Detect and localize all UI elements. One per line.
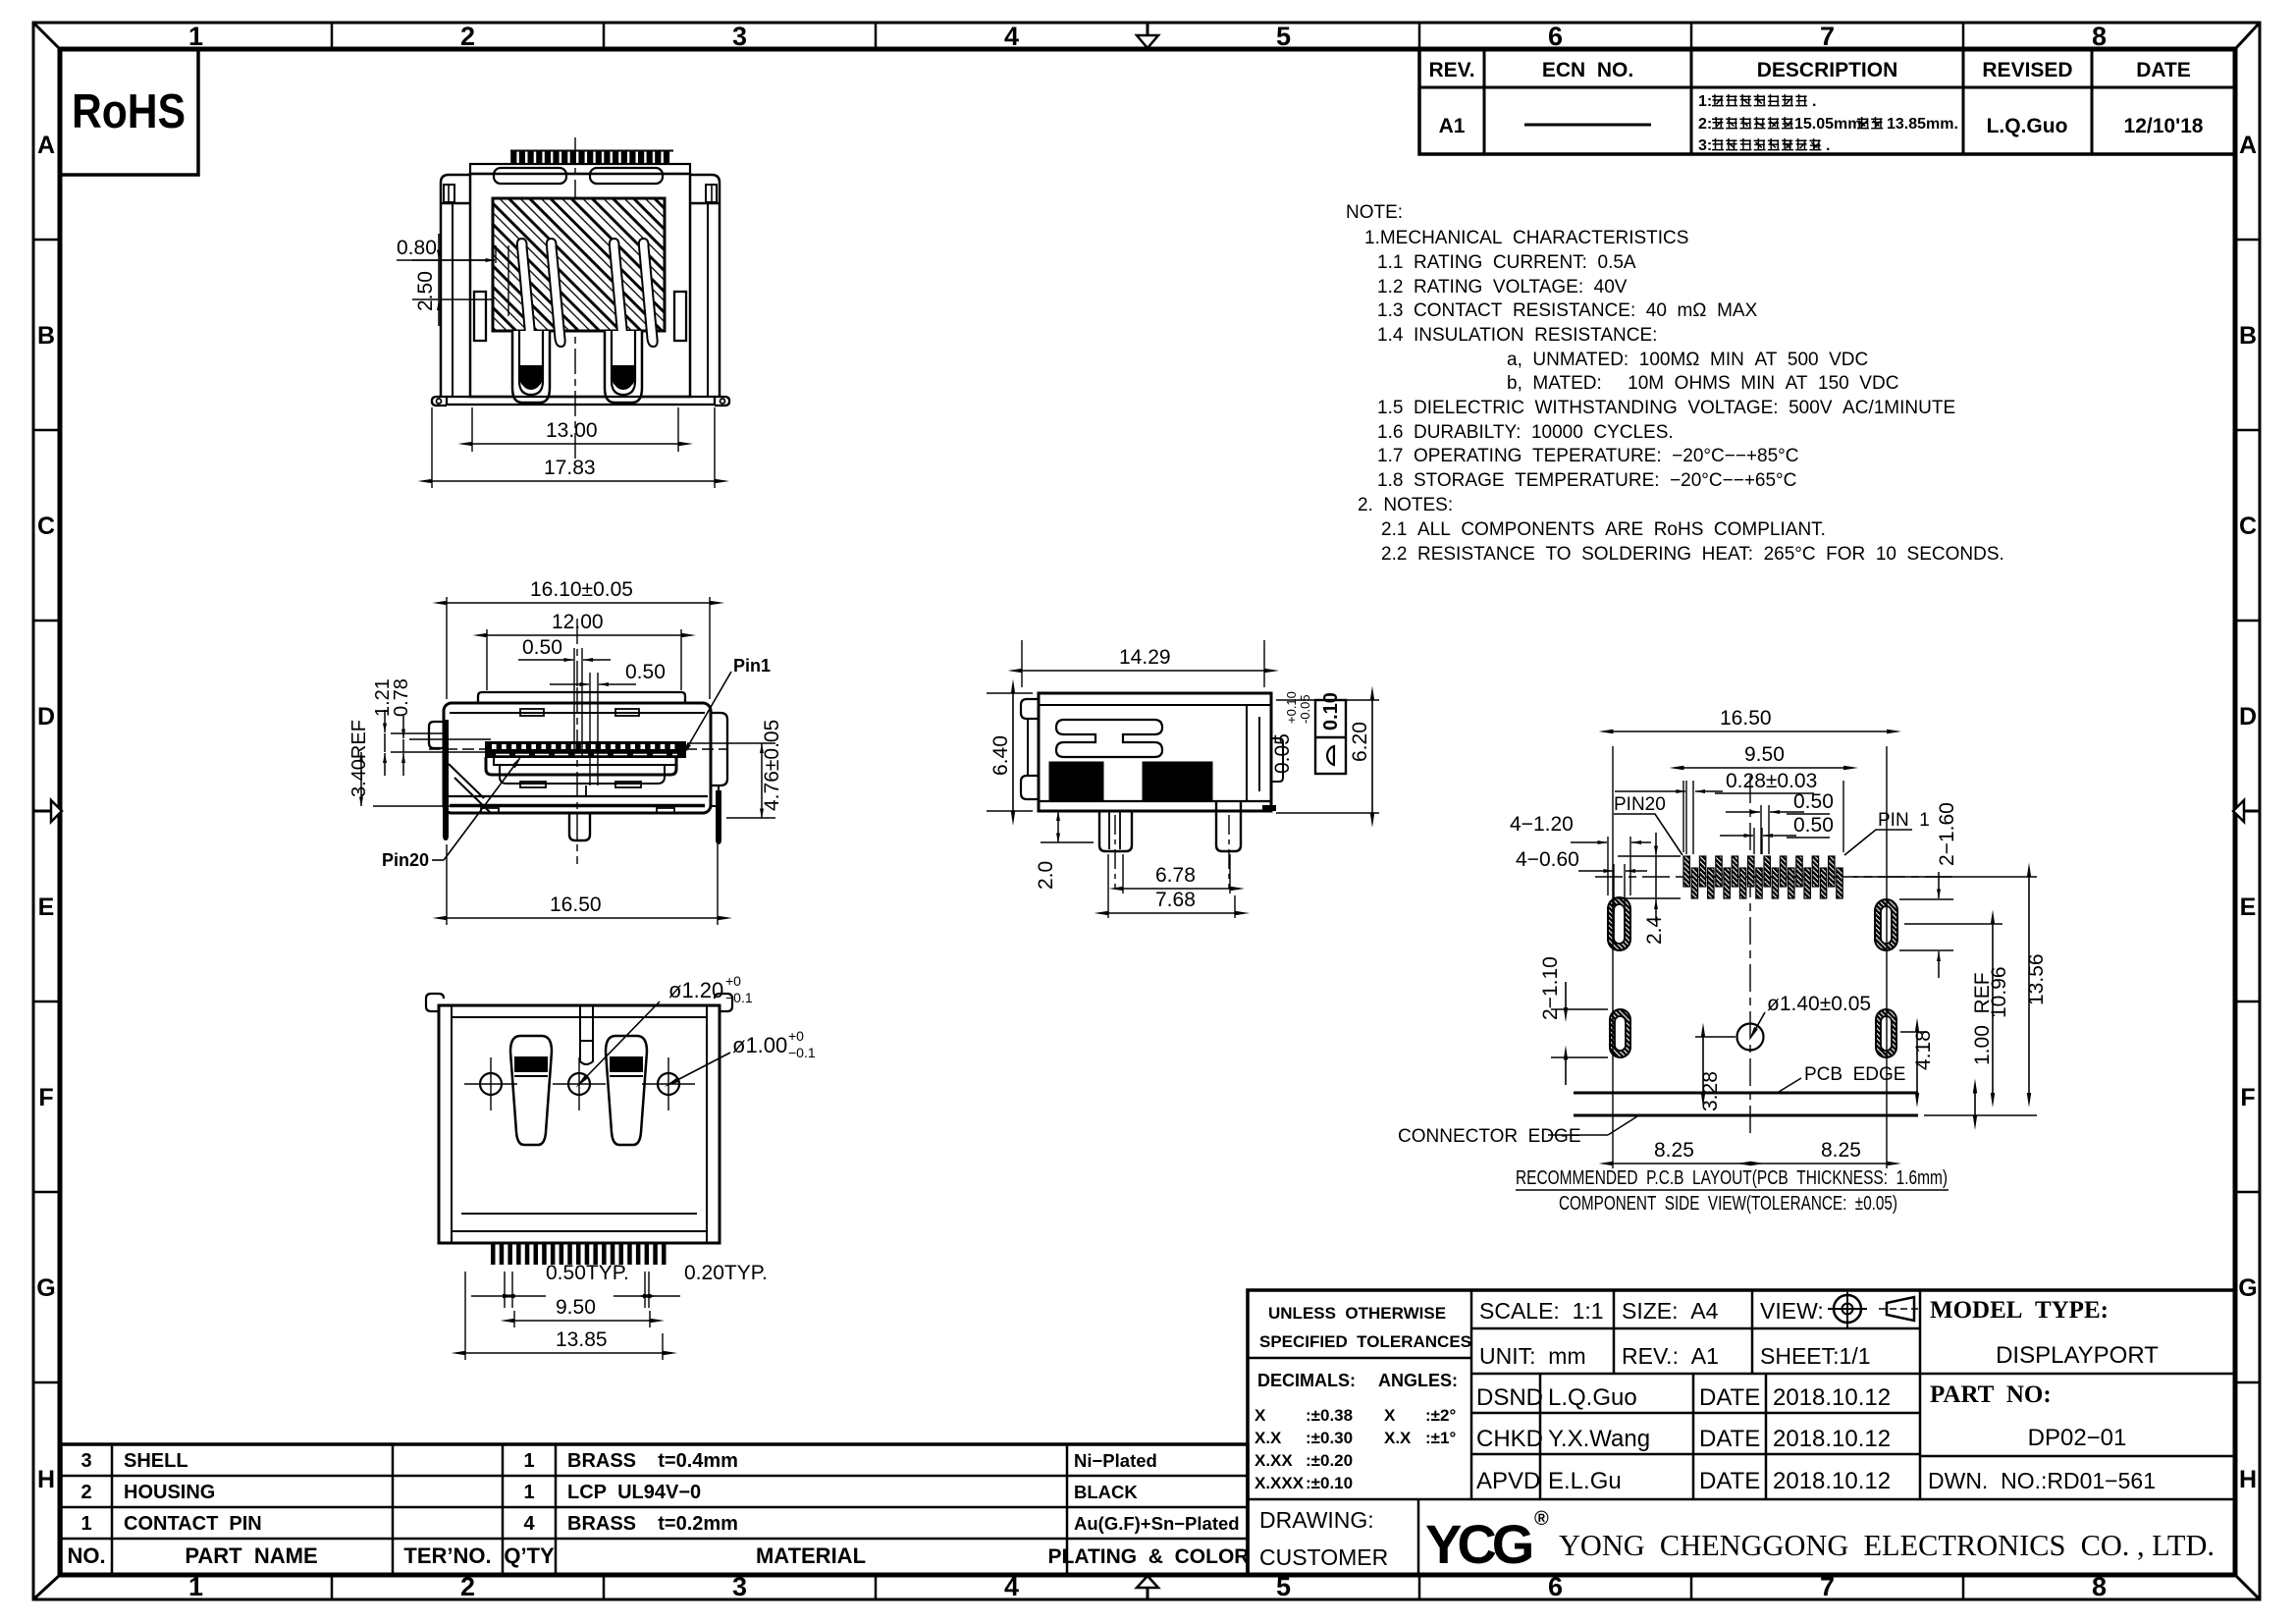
VIEW 1: connector top view	[432, 137, 729, 461]
svg-text:UNIT: mm: UNIT: mm	[1479, 1343, 1586, 1369]
svg-text:8.25: 8.25	[1821, 1139, 1861, 1162]
svg-text:0.28±0.03: 0.28±0.03	[1726, 770, 1817, 792]
svg-text:DECIMALS:: DECIMALS:	[1257, 1371, 1356, 1390]
svg-text:9.50: 9.50	[556, 1296, 596, 1319]
svg-text:SCALE: 1:1: SCALE: 1:1	[1479, 1298, 1604, 1324]
svg-text::±0.30: :±0.30	[1306, 1429, 1353, 1447]
svg-text:H: H	[2239, 1466, 2257, 1493]
svg-text:16.50: 16.50	[1720, 707, 1772, 730]
svg-text:13.85mm.: 13.85mm.	[1887, 116, 1958, 133]
svg-text:RECOMMENDED P.C.B LAYOUT(PCB: RECOMMENDED P.C.B LAYOUT(PCB THICKNESS: …	[1516, 1167, 1948, 1189]
svg-text:ECN NO.: ECN NO.	[1542, 59, 1633, 81]
svg-text:0.50: 0.50	[1793, 814, 1834, 837]
svg-text:H: H	[37, 1466, 55, 1493]
svg-text:E: E	[2240, 893, 2257, 921]
dim 0.50TYP	[504, 1272, 506, 1308]
svg-text:HOUSING: HOUSING	[124, 1482, 215, 1503]
svg-text:0.50: 0.50	[522, 636, 562, 659]
svg-text:PIN 1: PIN 1	[1878, 810, 1930, 831]
svg-text:A: A	[2239, 132, 2257, 159]
svg-text:ANGLES:: ANGLES:	[1378, 1371, 1458, 1390]
svg-text:RoHS: RoHS	[72, 85, 186, 138]
svg-text:.: .	[1812, 93, 1816, 110]
svg-text:COMPONENT SIDE VIEW(TOLERANC: COMPONENT SIDE VIEW(TOLERANCE: ±0.05)	[1559, 1193, 1897, 1215]
svg-text:6.40: 6.40	[989, 735, 1012, 776]
svg-text:3:: 3:	[1698, 137, 1712, 154]
svg-text:−0.1: −0.1	[725, 990, 753, 1005]
dims 8.25 + 8.25	[1613, 1163, 1750, 1164]
svg-text:1.6 DURABILTY: 10000 CYCLES: 1.6 DURABILTY: 10000 CYCLES.	[1377, 422, 1674, 443]
svg-text:L.Q.Guo: L.Q.Guo	[1987, 115, 2068, 137]
VIEW 4: connector bottom view	[426, 994, 732, 1265]
svg-text:6.20: 6.20	[1349, 722, 1371, 762]
svg-text::±0.20: :±0.20	[1306, 1451, 1353, 1470]
svg-text:4−0.60: 4−0.60	[1516, 848, 1579, 871]
svg-text:MATERIAL: MATERIAL	[756, 1543, 866, 1568]
dim 6.78	[1122, 854, 1124, 893]
svg-text:1.1 RATING CURRENT: 0.5A: 1.1 RATING CURRENT: 0.5A	[1377, 252, 1636, 273]
svg-text:VIEW:: VIEW:	[1760, 1298, 1824, 1324]
svg-text:1.7 OPERATING TEPERATURE: −: 1.7 OPERATING TEPERATURE: −20°C−−+85°C	[1377, 446, 1798, 466]
svg-text:®: ®	[1534, 1508, 1549, 1530]
svg-text:G: G	[2238, 1274, 2257, 1302]
svg-text:MODEL TYPE:: MODEL TYPE:	[1930, 1297, 2109, 1324]
svg-text:2:: 2:	[1698, 116, 1712, 133]
svg-text:ø1.00: ø1.00	[732, 1033, 787, 1057]
dim 0.50 upper	[573, 648, 575, 758]
svg-text:B: B	[2239, 322, 2257, 350]
svg-text:PIN20: PIN20	[1614, 794, 1666, 815]
svg-text:DATE: DATE	[2136, 59, 2191, 81]
svg-text:DP02−01: DP02−01	[2028, 1425, 2127, 1451]
svg-text:CUSTOMER: CUSTOMER	[1259, 1544, 1388, 1570]
svg-text:APVD: APVD	[1476, 1468, 1540, 1494]
VIEW 5: recommended PCB layout	[1574, 776, 1958, 1139]
third-angle view symbols	[1828, 1289, 1867, 1328]
svg-text:6.78: 6.78	[1155, 864, 1196, 887]
svg-text:.: .	[1826, 137, 1830, 154]
svg-text:15.05mm: 15.05mm	[1794, 116, 1862, 133]
svg-text:0.05: 0.05	[1271, 733, 1294, 774]
svg-text:0.10: 0.10	[1320, 692, 1342, 731]
svg-text:9.50: 9.50	[1744, 743, 1785, 766]
svg-text:C: C	[37, 513, 55, 540]
svg-text:1.2 RATING VOLTAGE: 40V: 1.2 RATING VOLTAGE: 40V	[1377, 277, 1628, 298]
svg-text:1.MECHANICAL CHARACTERISTICS: 1.MECHANICAL CHARACTERISTICS	[1364, 228, 1688, 248]
svg-text:PCB EDGE: PCB EDGE	[1804, 1064, 1905, 1085]
svg-text:2.0: 2.0	[1035, 861, 1057, 890]
svg-text:TERʼNO.: TERʼNO.	[403, 1543, 491, 1568]
svg-text:5: 5	[1276, 22, 1291, 51]
svg-text:CONNECTOR EDGE: CONNECTOR EDGE	[1398, 1126, 1581, 1147]
dim 1.21 / 0.78	[391, 732, 448, 734]
svg-text:Y.X.Wang: Y.X.Wang	[1548, 1426, 1650, 1452]
svg-text:1: 1	[523, 1482, 534, 1503]
svg-text:REV.: A1: REV.: A1	[1622, 1343, 1719, 1369]
svg-text:7.68: 7.68	[1155, 889, 1196, 911]
svg-text:a, UNMATED: 100MΩ MIN AT: a, UNMATED: 100MΩ MIN AT 500 VDC	[1507, 350, 1868, 370]
dim 14.29	[1021, 640, 1023, 687]
svg-text:Pin1: Pin1	[733, 656, 771, 676]
svg-text:4−1.20: 4−1.20	[1510, 813, 1574, 836]
svg-text:1: 1	[523, 1450, 534, 1472]
centering marks	[33, 810, 51, 813]
svg-text:DWN. NO.:RD01−561: DWN. NO.:RD01−561	[1928, 1468, 2156, 1493]
svg-text::±0.38: :±0.38	[1306, 1406, 1353, 1425]
svg-text:1:: 1:	[1698, 93, 1712, 110]
dim 9.50	[513, 1311, 515, 1327]
svg-text:2018.10.12: 2018.10.12	[1773, 1384, 1891, 1411]
svg-text:F: F	[2240, 1084, 2255, 1111]
svg-text:2.2 RESISTANCE TO SOLDERING: 2.2 RESISTANCE TO SOLDERING HEAT: 265°C …	[1381, 544, 2004, 565]
svg-text:CONTACT PIN: CONTACT PIN	[124, 1513, 262, 1535]
svg-text:REV.: REV.	[1428, 59, 1474, 81]
svg-text:13.00: 13.00	[546, 419, 598, 442]
svg-text:UNLESS OTHERWISE: UNLESS OTHERWISE	[1268, 1304, 1446, 1323]
title block	[1248, 1290, 2235, 1575]
svg-text:D: D	[37, 703, 55, 731]
svg-text:7: 7	[1820, 22, 1835, 51]
svg-text:YONG CHENGGONG ELECTRONICS: YONG CHENGGONG ELECTRONICS CO. , LTD.	[1559, 1528, 2215, 1562]
svg-text:BRASS t=0.4mm: BRASS t=0.4mm	[567, 1450, 738, 1472]
dim 0.50 pcb upper	[1760, 805, 1762, 854]
svg-text:1.00 REF: 1.00 REF	[1971, 972, 1994, 1065]
svg-text:2: 2	[80, 1482, 91, 1503]
svg-text:1.4 INSULATION RESISTANCE:: 1.4 INSULATION RESISTANCE:	[1377, 325, 1657, 346]
svg-text:NOTE:: NOTE:	[1346, 202, 1403, 223]
corner diagonals	[33, 23, 60, 49]
dim 16.10±0.05	[446, 597, 448, 699]
dim 16.50 pcb	[1612, 746, 1614, 1168]
dim 13.85	[464, 1272, 466, 1360]
svg-text:ø1.40±0.05: ø1.40±0.05	[1767, 993, 1871, 1015]
svg-text:3.40REF: 3.40REF	[348, 720, 370, 797]
svg-text:13.85: 13.85	[556, 1328, 608, 1351]
svg-text:−0.1: −0.1	[788, 1045, 816, 1060]
svg-text:DATE: DATE	[1699, 1426, 1760, 1452]
svg-text:E.L.Gu: E.L.Gu	[1548, 1468, 1622, 1494]
dim 3.40REF	[373, 805, 454, 807]
svg-text:E: E	[38, 893, 55, 921]
svg-text:X.X: X.X	[1384, 1429, 1412, 1447]
VIEW 3: connector side view	[1021, 693, 1283, 889]
svg-text:Ni−Plated: Ni−Plated	[1074, 1450, 1157, 1471]
svg-text:NO.: NO.	[67, 1543, 105, 1568]
dim 2.0	[1041, 810, 1070, 812]
dim 6.20	[1276, 699, 1379, 701]
svg-text:2−1.10: 2−1.10	[1539, 956, 1562, 1020]
dim 7.68	[1107, 854, 1109, 918]
svg-text:F: F	[38, 1084, 53, 1111]
svg-text:2018.10.12: 2018.10.12	[1773, 1468, 1891, 1494]
feature control frame 0.10	[1315, 700, 1346, 774]
svg-text:X.X: X.X	[1255, 1429, 1282, 1447]
revision table	[1419, 49, 2235, 154]
svg-text:A: A	[37, 132, 55, 159]
svg-text::±1°: :±1°	[1425, 1429, 1456, 1447]
dim 6.40	[987, 692, 1033, 694]
svg-text:SHELL: SHELL	[124, 1450, 188, 1472]
svg-text:-0.05: -0.05	[1298, 694, 1312, 724]
svg-text::±0.10: :±0.10	[1306, 1474, 1353, 1492]
dim 0.50 lower	[589, 673, 591, 785]
svg-text:BRASS t=0.2mm: BRASS t=0.2mm	[567, 1513, 738, 1535]
svg-text:0.20TYP.: 0.20TYP.	[684, 1262, 768, 1284]
svg-text:b, MATED: 10M OHMS MIN: b, MATED: 10M OHMS MIN AT 150 VDC	[1507, 373, 1898, 394]
svg-text:DATE: DATE	[1699, 1384, 1760, 1411]
svg-text:2.50: 2.50	[414, 271, 437, 311]
svg-text:G: G	[36, 1274, 55, 1302]
dim 13.00	[471, 407, 473, 452]
svg-text:6: 6	[1548, 22, 1563, 51]
svg-text:REVISED: REVISED	[1982, 59, 2072, 81]
dim 16.50	[446, 844, 448, 925]
dim 0.80	[507, 245, 509, 316]
svg-text:12.00: 12.00	[552, 611, 604, 633]
svg-text:3: 3	[732, 22, 747, 51]
svg-text:16.50: 16.50	[550, 893, 602, 916]
zone tick marks and labels	[331, 23, 334, 49]
svg-text:1: 1	[80, 1513, 91, 1535]
svg-text:Pin20: Pin20	[382, 850, 429, 870]
svg-text:X.XX: X.XX	[1255, 1451, 1293, 1470]
svg-text:PART NO:: PART NO:	[1930, 1381, 2052, 1408]
svg-text:12/10'18: 12/10'18	[2124, 115, 2204, 137]
svg-text:DESCRIPTION: DESCRIPTION	[1757, 59, 1898, 81]
svg-text:17.83: 17.83	[544, 457, 596, 479]
svg-text:ø1.20: ø1.20	[668, 978, 723, 1002]
svg-text:Au(G.F)+Sn−Plated: Au(G.F)+Sn−Plated	[1074, 1513, 1240, 1534]
svg-text:SIZE: A4: SIZE: A4	[1622, 1298, 1719, 1324]
svg-text:A1: A1	[1439, 115, 1466, 137]
svg-text:B: B	[37, 322, 55, 350]
dim 12.00	[486, 629, 488, 690]
svg-text:2.4: 2.4	[1643, 915, 1666, 945]
svg-text:X: X	[1255, 1406, 1266, 1425]
RoHS label box	[60, 49, 198, 175]
svg-text:+0: +0	[788, 1028, 804, 1044]
svg-text:DSND: DSND	[1476, 1384, 1543, 1411]
svg-text:2.1 ALL COMPONENTS ARE RoH: 2.1 ALL COMPONENTS ARE RoHS COMPLIANT.	[1381, 519, 1826, 540]
svg-text:BLACK: BLACK	[1074, 1482, 1138, 1502]
svg-text:4: 4	[1004, 22, 1019, 51]
svg-text:C: C	[2239, 513, 2257, 540]
svg-text:16.10±0.05: 16.10±0.05	[530, 578, 633, 601]
svg-text:DRAWING:: DRAWING:	[1259, 1507, 1374, 1533]
svg-text:2: 2	[460, 22, 475, 51]
dim 0.50 pcb lower	[1720, 835, 1753, 837]
svg-text:2. NOTES:: 2. NOTES:	[1358, 495, 1453, 515]
svg-text:CHKD: CHKD	[1476, 1426, 1543, 1452]
svg-text:2−1.60: 2−1.60	[1936, 802, 1958, 866]
dim 0.20TYP	[644, 1272, 646, 1308]
svg-text:D: D	[2239, 703, 2257, 731]
svg-text:LCP UL94V−0: LCP UL94V−0	[567, 1482, 701, 1503]
svg-text:0.50: 0.50	[625, 661, 666, 683]
svg-text:0.50TYP.: 0.50TYP.	[546, 1262, 629, 1284]
svg-text:8.25: 8.25	[1654, 1139, 1694, 1162]
svg-text:X.XXX: X.XXX	[1255, 1474, 1305, 1492]
dim 9.50 pcb	[1682, 781, 1684, 852]
dim 4.76±0.05	[687, 742, 775, 744]
svg-text:DISPLAYPORT: DISPLAYPORT	[1996, 1342, 2159, 1369]
svg-text:4.18: 4.18	[1912, 1030, 1935, 1070]
parts list table	[61, 1444, 1248, 1575]
svg-text:4.76±0.05: 4.76±0.05	[761, 720, 783, 811]
dim 2.50	[412, 259, 493, 261]
svg-text:X: X	[1384, 1406, 1396, 1425]
svg-text:YCG: YCG	[1425, 1513, 1532, 1575]
dim 0.28±0.03	[1685, 781, 1687, 854]
svg-text:2018.10.12: 2018.10.12	[1773, 1426, 1891, 1452]
svg-text:QʼTY: QʼTY	[504, 1543, 555, 1568]
dim 17.83	[431, 407, 433, 488]
svg-text:0.78: 0.78	[391, 678, 412, 717]
svg-text:0.80: 0.80	[397, 237, 437, 259]
svg-text:L.Q.Guo: L.Q.Guo	[1548, 1384, 1637, 1411]
svg-text::±2°: :±2°	[1425, 1406, 1456, 1425]
svg-text:3: 3	[80, 1450, 91, 1472]
svg-text:SPECIFIED TOLERANCES: SPECIFIED TOLERANCES	[1259, 1332, 1471, 1351]
svg-text:1.3 CONTACT RESISTANCE: 40: 1.3 CONTACT RESISTANCE: 40 mΩ MAX	[1377, 300, 1758, 321]
svg-text:1.8 STORAGE TEMPERATURE: −2: 1.8 STORAGE TEMPERATURE: −20°C−−+65°C	[1377, 470, 1796, 491]
svg-text:PLATING & COLOR: PLATING & COLOR	[1048, 1545, 1250, 1568]
svg-text:0.50: 0.50	[1793, 790, 1834, 813]
svg-text:PART NAME: PART NAME	[185, 1543, 317, 1568]
VIEW 2: connector front view	[429, 619, 727, 864]
svg-text:1.5 DIELECTRIC WITHSTANDING: 1.5 DIELECTRIC WITHSTANDING VOLTAGE: 500…	[1377, 398, 1955, 418]
svg-text:8: 8	[2092, 22, 2107, 51]
svg-text:+0: +0	[725, 973, 741, 989]
svg-text:4: 4	[523, 1513, 535, 1535]
svg-text:14.29: 14.29	[1119, 646, 1171, 669]
svg-text:DATE: DATE	[1699, 1468, 1760, 1494]
svg-text:+0.10: +0.10	[1284, 691, 1299, 724]
svg-text:1: 1	[188, 22, 203, 51]
svg-text:SHEET:1/1: SHEET:1/1	[1760, 1343, 1871, 1369]
